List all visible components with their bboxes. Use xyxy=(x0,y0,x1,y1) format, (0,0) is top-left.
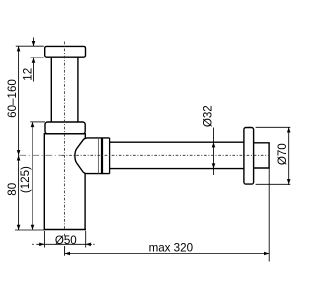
dim (125) line xyxy=(32,122,34,230)
extension line nut top xyxy=(30,121,45,123)
dim O50 right extension xyxy=(85,231,87,248)
dim O50 left extension xyxy=(43,231,45,248)
svg-text:(125): (125) xyxy=(19,166,32,193)
dim O50 line xyxy=(36,243,92,245)
elbow ring nut right face xyxy=(109,138,111,174)
dim O70 bottom extension xyxy=(256,183,291,185)
extension line body bottom left xyxy=(15,229,44,231)
horizontal outlet pipe top xyxy=(110,141,244,143)
dim O50 tail dot left xyxy=(32,243,34,245)
svg-text:60–160: 60–160 xyxy=(6,79,19,118)
elbow outlet xyxy=(75,138,110,174)
wall tailpiece xyxy=(254,143,270,168)
svg-text:Ø32: Ø32 xyxy=(202,105,215,127)
dim O70 line xyxy=(288,127,290,185)
vertical inlet pipe left edge xyxy=(50,57,52,122)
trap body left edge xyxy=(43,133,45,230)
dim 12 lower leg xyxy=(33,58,35,82)
union nut xyxy=(45,122,85,134)
top cap flange xyxy=(45,46,86,57)
trap body right edge lower segment xyxy=(84,173,86,230)
svg-text:max 320: max 320 xyxy=(149,241,193,254)
dim 60-160 line xyxy=(18,46,20,155)
dim O70 top extension xyxy=(256,126,291,128)
dim O50 tail dot right xyxy=(93,243,94,245)
elbow ring nut left face xyxy=(101,138,103,174)
svg-text:Ø50: Ø50 xyxy=(55,234,77,247)
trap body right edge upper stub xyxy=(84,133,86,138)
horizontal outlet pipe bottom xyxy=(110,168,244,170)
horizontal centerline xyxy=(62,154,269,156)
dim O32 line xyxy=(213,128,215,176)
wall flange xyxy=(244,128,254,185)
svg-text:12: 12 xyxy=(22,68,35,81)
dim max320 right extension xyxy=(268,169,270,262)
vertical centerline xyxy=(63,42,65,230)
dim max320 left tick (centerline dash) xyxy=(64,246,66,256)
extension line cap top xyxy=(16,45,44,47)
dim 80 line xyxy=(18,155,20,230)
elbow end face xyxy=(97,138,99,174)
extension line cap bottom xyxy=(30,57,43,59)
svg-text:Ø70: Ø70 xyxy=(276,143,289,165)
dim 12 upper leg xyxy=(33,38,35,47)
trap body bottom edge xyxy=(44,229,86,231)
horizontal centerline left extension xyxy=(19,154,62,156)
svg-text:80: 80 xyxy=(6,183,19,196)
vertical inlet pipe right edge xyxy=(77,57,79,122)
trap body top edge xyxy=(44,133,85,135)
vertical centerline lower dot xyxy=(64,234,66,237)
dim max320 line xyxy=(65,253,269,255)
